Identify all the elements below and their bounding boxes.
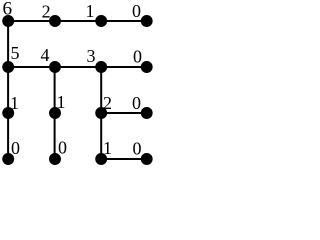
svg-text:1: 1 [103, 138, 112, 158]
svg-text:1: 1 [86, 1, 95, 21]
svg-text:0: 0 [133, 139, 142, 159]
svg-text:2: 2 [103, 93, 112, 113]
svg-text:0: 0 [58, 138, 67, 158]
svg-text:3: 3 [87, 46, 96, 66]
svg-text:6: 6 [3, 0, 13, 20]
svg-text:2: 2 [42, 2, 51, 22]
svg-text:0: 0 [132, 1, 141, 21]
svg-text:4: 4 [41, 45, 50, 65]
svg-text:5: 5 [11, 43, 20, 63]
svg-text:1: 1 [57, 92, 66, 112]
svg-text:0: 0 [133, 46, 142, 66]
svg-text:0: 0 [11, 138, 20, 158]
svg-text:0: 0 [132, 93, 141, 113]
svg-text:1: 1 [10, 93, 19, 113]
